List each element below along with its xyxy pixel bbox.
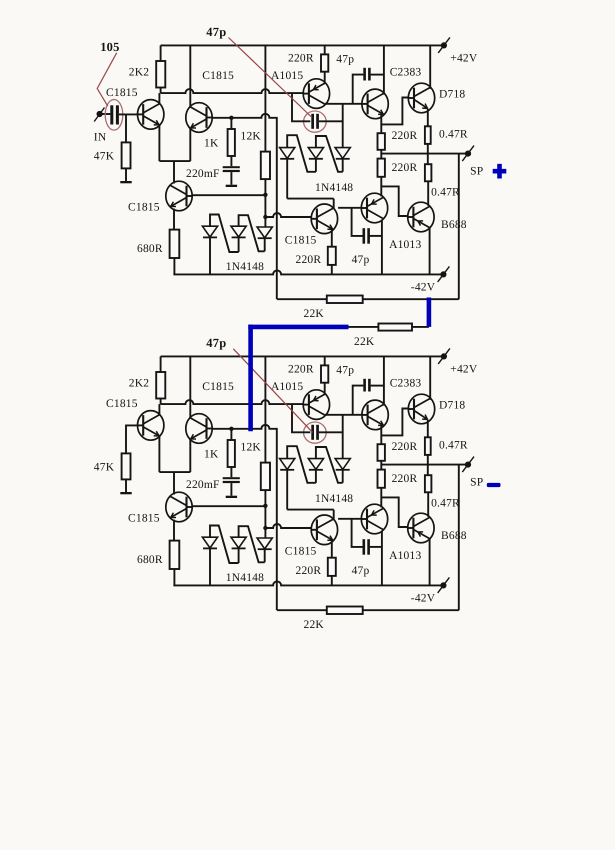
svg-text:105: 105	[100, 40, 119, 54]
wire D3 cathode lead A	[264, 238, 266, 251]
wire 47p right lead A	[371, 74, 384, 76]
svg-text:0.47R: 0.47R	[439, 129, 468, 141]
wire A1015 collector line A	[325, 103, 362, 105]
wire 47p left lead riser A1013 A	[352, 208, 364, 236]
wire D1 anode jog B	[210, 526, 239, 564]
wire 0.47R bottom to B688 B	[427, 492, 429, 517]
wire Q1 base to 47K B	[126, 425, 138, 453]
label 220R A1015 emitter A	[288, 53, 314, 65]
svg-text:-42V: -42V	[411, 593, 436, 605]
wire 220R VAS bottom lead A	[331, 265, 333, 275]
wire Q2 emitter B	[189, 439, 191, 472]
label C2383 B	[390, 378, 422, 390]
transistor Q7 C1815 VAS A	[311, 204, 337, 234]
blue minus sign at SP-	[487, 483, 501, 487]
wire D718 base wire A	[381, 98, 408, 125]
wire 0.47R top to output B	[427, 455, 429, 465]
wire 0.47R bottom top lead A	[427, 154, 429, 165]
transistor Q4 A1015 B	[303, 390, 329, 420]
capacitor 47p A1013 B	[363, 539, 370, 555]
wire VAS collector stub B	[333, 510, 335, 520]
label C1815 Q1 A	[106, 87, 138, 99]
resistor 220R A1015 emitter B	[321, 365, 328, 382]
terminal +42V B	[438, 348, 450, 364]
red highlight ellipse around input cap	[105, 100, 123, 131]
svg-text:-42V: -42V	[411, 282, 436, 294]
wire D3 cathode lead B	[264, 549, 266, 562]
label 1N4148 left chain A	[226, 261, 264, 273]
wire D718 collector riser B	[429, 356, 431, 399]
wire 2K2 top lead B	[160, 356, 162, 372]
wire 47K bottom lead A	[125, 168, 127, 181]
label 1K A	[204, 138, 219, 150]
blue wire bridge vertical right	[427, 298, 432, 327]
label 12K B	[241, 441, 262, 453]
transistor Q9 B688 B	[408, 513, 434, 543]
red highlight circle around 47p A	[304, 111, 327, 132]
diode D6 1N4148 B	[335, 459, 350, 470]
wire VAS base line B	[265, 524, 311, 528]
wire input to coupling cap	[100, 113, 111, 115]
label 12K A	[241, 130, 262, 142]
label 47p C2383 B	[336, 365, 354, 377]
svg-text:SP: SP	[470, 166, 483, 178]
wire A1013 collector to rail A	[381, 220, 383, 275]
wire feedback line B	[277, 609, 459, 611]
label SP A	[470, 166, 483, 178]
wire Q1 collector A	[158, 93, 160, 104]
resistor 2K2 B	[156, 372, 165, 399]
wire 2K2 top lead A	[160, 45, 162, 61]
wire 220R top lead B	[324, 356, 326, 365]
label 0.47R top B	[439, 440, 468, 452]
resistor 0.47R top B	[425, 437, 431, 455]
label +42V A	[450, 53, 478, 65]
wire 220R VAS bottom lead B	[331, 576, 333, 586]
wire D5 anode jog A	[316, 136, 343, 172]
wire Q1-collector to A1015-base line B	[161, 400, 304, 404]
svg-text:220R: 220R	[296, 254, 322, 266]
svg-text:22K: 22K	[304, 308, 325, 320]
label 0.47R bottom B	[431, 497, 460, 509]
wire 47p right lead A	[319, 120, 343, 122]
label 680R A	[137, 243, 163, 255]
wire Q2 collector riser A	[189, 45, 191, 107]
label 47K A	[94, 151, 115, 163]
label 47K B	[94, 462, 115, 474]
wire black link to 22K bridge	[349, 326, 429, 328]
wire D4 anode jog B	[287, 446, 316, 483]
svg-text:D718: D718	[439, 399, 465, 411]
wire D718 emitter B	[427, 420, 429, 438]
transistor Q3 C1815 current source B	[166, 492, 192, 522]
label A1013 B	[389, 550, 421, 562]
wire D4 cathode riser B	[286, 470, 288, 510]
wire VAS emitter B	[331, 540, 333, 558]
label -42V A	[411, 282, 436, 294]
resistor 0.47R bottom A	[425, 164, 432, 181]
junction dot bias node upper B	[263, 504, 267, 508]
wire 1K top lead B	[230, 429, 232, 440]
diode D5 1N4148 A	[308, 148, 323, 159]
diode D3 1N4148 B	[257, 538, 272, 549]
terminal +42V A	[438, 37, 450, 53]
svg-text:220R: 220R	[392, 130, 418, 142]
label C1815 VAS A	[285, 235, 317, 247]
wire 47p right lead A1013 A	[369, 235, 382, 237]
svg-text:680R: 680R	[137, 243, 163, 255]
wire VAS emitter A	[331, 229, 333, 247]
resistor 220R driver 1 B	[378, 444, 385, 461]
wire -42V bottom rail B	[173, 581, 443, 585]
wire 220R2 bottom lead B	[380, 488, 382, 508]
label 2K2 B	[129, 378, 149, 390]
transistor Q2 C1815 A	[186, 103, 212, 133]
wire 12K riser from rail B	[264, 356, 266, 462]
svg-text:22K: 22K	[354, 336, 375, 348]
transistor Q4 A1015 A	[303, 79, 329, 109]
label 22K bridge	[354, 336, 375, 348]
svg-text:0.47R: 0.47R	[439, 440, 468, 452]
label 220R VAS emitter B	[296, 565, 322, 577]
svg-text:47p: 47p	[352, 565, 370, 577]
svg-text:+42V: +42V	[450, 53, 478, 65]
wire SP riser to feedback A	[458, 154, 460, 300]
wire 2K2 bottom lead A	[160, 88, 162, 94]
svg-text:220mF: 220mF	[186, 168, 220, 180]
blue wire bridge horizontal	[248, 325, 348, 330]
svg-text:220R: 220R	[288, 53, 314, 65]
label 220R VAS emitter A	[296, 254, 322, 266]
label D718 A	[439, 88, 465, 100]
wire 680R bottom lead B	[173, 569, 175, 585]
wire 220R to A1015 emitter B	[324, 383, 326, 395]
label IN	[94, 132, 107, 144]
terminal -42V A	[438, 266, 450, 282]
svg-text:B688: B688	[441, 530, 467, 542]
label 1N4148 right chain B	[315, 493, 353, 505]
transistor Q6 D718 A	[408, 83, 434, 113]
wire Q1-collector to A1015-base line A	[161, 89, 304, 93]
capacitor 220mF A	[223, 166, 240, 172]
label 220R A1015 emitter B	[288, 364, 314, 376]
ground 47K B	[120, 492, 131, 494]
wire emitter tail line B	[159, 471, 190, 473]
wire Q3 base line A	[192, 194, 265, 196]
label 680R B	[137, 554, 163, 566]
diode D4 1N4148 A	[280, 148, 295, 159]
wire D1 cathode to rail B	[209, 549, 211, 586]
wire D5 cathode lead B	[315, 470, 317, 483]
wire C2383 collector riser B	[383, 356, 385, 405]
svg-text:2K2: 2K2	[129, 378, 149, 390]
wire 47p left lead and riser A	[353, 75, 364, 104]
diode D1 1N4148 A	[202, 226, 217, 237]
resistor 220R driver 2 B	[378, 470, 385, 488]
label C1815 Q2 A	[202, 70, 234, 82]
resistor 220R driver 2 A	[378, 159, 385, 177]
blue plus sign at SP+	[493, 164, 507, 179]
svg-text:C1815: C1815	[106, 87, 138, 99]
label 220R driver 1 A	[392, 130, 418, 142]
capacitor 47p C2383 Miller A	[363, 68, 370, 81]
label 1N4148 left chain B	[226, 572, 264, 584]
wire D718 collector riser A	[429, 45, 431, 88]
wire 220R to A1015 emitter A	[324, 72, 326, 84]
svg-text:2K2: 2K2	[129, 67, 149, 79]
svg-text:680R: 680R	[137, 554, 163, 566]
wire C2383 emitter riser A	[380, 114, 382, 133]
svg-text:C1815: C1815	[202, 381, 234, 393]
svg-text:B688: B688	[441, 219, 467, 231]
svg-text:A1015: A1015	[271, 381, 303, 393]
svg-text:C1815: C1815	[106, 398, 138, 410]
svg-text:C1815: C1815	[128, 201, 160, 213]
svg-text:47p: 47p	[206, 336, 226, 350]
transistor Q5 C2383 B	[362, 400, 388, 430]
diode D2 1N4148 B	[231, 537, 246, 548]
svg-text:C1815: C1815	[128, 512, 160, 524]
label SP B	[470, 477, 483, 489]
resistor 22K bridge	[378, 324, 412, 331]
wire 47K bottom lead B	[125, 479, 127, 492]
resistor 22K feedback B	[327, 607, 363, 615]
ground 47K A	[120, 181, 131, 183]
svg-text:1N4148: 1N4148	[315, 182, 353, 194]
label 22K feedback A	[304, 308, 325, 320]
svg-text:SP: SP	[470, 477, 483, 489]
wire A1013 base line B	[338, 518, 361, 520]
red pointer line from 47p label to cap B	[233, 349, 312, 433]
wire Q3 emitter B	[173, 520, 175, 541]
svg-text:47p: 47p	[336, 365, 354, 377]
wire A1015 collector line B	[325, 414, 362, 416]
svg-text:1N4148: 1N4148	[226, 261, 264, 273]
wire 47p left lead riser B	[292, 404, 310, 432]
svg-text:0.47R: 0.47R	[431, 186, 460, 198]
transistor Q9 B688 A	[408, 202, 434, 232]
wire C2383 emitter riser B	[380, 425, 382, 444]
svg-text:47K: 47K	[94, 462, 115, 474]
resistor 220R VAS emitter B	[328, 558, 336, 576]
label B688 A	[441, 219, 467, 231]
svg-text:C1815: C1815	[285, 546, 317, 558]
wire B688 emitter A	[429, 228, 431, 275]
wire Q2 collector riser B	[189, 356, 191, 418]
wire 220mF bottom lead B	[230, 483, 232, 496]
label A1015 A	[271, 70, 303, 82]
wire D2 anode jog B	[239, 526, 265, 562]
wire 0.47R bottom top lead B	[427, 465, 429, 476]
wire 1K bottom lead A	[230, 156, 232, 166]
label 1N4148 right chain A	[315, 182, 353, 194]
svg-text:12K: 12K	[241, 130, 262, 142]
transistor Q2 C1815 B	[186, 414, 212, 444]
junction dot bias node lower B	[263, 526, 267, 530]
label 220R driver 2 A	[392, 162, 418, 174]
diode D2 1N4148 A	[231, 226, 246, 237]
wire 12K bottom to bias node B	[264, 490, 266, 538]
wire 47p left lead and riser B	[353, 386, 364, 415]
resistor 12K B	[261, 463, 270, 491]
diode D3 1N4148 A	[257, 227, 272, 238]
label 105 (bold)	[100, 40, 119, 54]
label 47p A1013 A	[352, 254, 370, 266]
resistor 47K A	[122, 142, 131, 168]
resistor 1K A	[228, 129, 235, 156]
resistor 0.47R bottom B	[425, 475, 432, 492]
label D718 B	[439, 399, 465, 411]
wire -42V bottom rail A	[173, 270, 443, 274]
svg-text:12K: 12K	[241, 441, 262, 453]
resistor 220R A1015 emitter A	[321, 54, 328, 71]
wire +42V top rail B	[161, 355, 444, 357]
transistor Q1 C1815 input A	[138, 100, 164, 130]
label 47p (bold) A	[206, 25, 226, 39]
wire C2383 collector riser A	[383, 45, 385, 94]
wire Q1 emitter B	[158, 436, 160, 473]
capacitor 220mF B	[223, 477, 240, 483]
junction dot bias node upper A	[263, 193, 267, 197]
resistor 0.47R top A	[425, 126, 431, 144]
wire A1013 collector to rail B	[381, 531, 383, 586]
wire D718 emitter A	[427, 109, 429, 127]
capacitor 47p Miller A1015 B	[311, 425, 319, 440]
label 0.47R bottom A	[431, 186, 460, 198]
red pointer line from 105 label to input cap	[97, 53, 117, 106]
svg-text:+42V: +42V	[450, 364, 478, 376]
svg-text:220R: 220R	[392, 473, 418, 485]
label A1013 A	[389, 239, 421, 251]
wire Q1 emitter A	[158, 125, 160, 162]
svg-text:22K: 22K	[304, 619, 325, 631]
wire Q3 emitter A	[173, 209, 175, 230]
svg-text:1N4148: 1N4148	[226, 572, 264, 584]
label +42V B	[450, 364, 478, 376]
svg-text:220R: 220R	[392, 441, 418, 453]
wire 0.47R bottom to B688 A	[427, 181, 429, 206]
svg-text:1N4148: 1N4148	[315, 493, 353, 505]
resistor 47K B	[122, 453, 131, 479]
label A1015 B	[271, 381, 303, 393]
wire 0.47R top to output A	[427, 144, 429, 154]
junction dot bias node lower A	[263, 215, 267, 219]
wire 220R1-220R2 link A	[380, 150, 382, 159]
wire A1013 base line A	[338, 207, 361, 209]
wire +42V top rail A	[161, 44, 444, 46]
wire D1 cathode to rail A	[209, 238, 211, 275]
wire D6 cathode lead B	[342, 470, 344, 483]
ground 220mF A	[226, 185, 237, 187]
junction dot 1K top A	[229, 116, 233, 120]
junction dot 1K top B	[229, 427, 233, 431]
wire output node line A	[381, 153, 468, 155]
wire VAS collector line B	[287, 509, 334, 511]
svg-text:220R: 220R	[392, 162, 418, 174]
transistor Q5 C2383 A	[362, 89, 388, 119]
wire 1K bottom lead B	[230, 467, 232, 477]
wire 47K top lead	[125, 114, 127, 142]
transistor Q3 C1815 current source A	[166, 181, 192, 211]
wire D2 cathode lead A	[238, 238, 240, 253]
resistor 220R VAS emitter A	[328, 247, 336, 265]
diode D6 1N4148 A	[335, 148, 350, 159]
wire B688 base wire A	[381, 186, 408, 216]
wire D1 anode jog A	[210, 215, 239, 253]
capacitor 47p A1013 A	[363, 228, 370, 244]
wire VAS base line A	[265, 213, 311, 217]
svg-text:0.47R: 0.47R	[431, 497, 460, 509]
wire 220R1-220R2 link B	[380, 461, 382, 470]
label 220R driver 2 B	[392, 473, 418, 485]
wire B688 base wire B	[381, 497, 408, 527]
wire Q3 base line B	[192, 505, 265, 507]
wire B688 emitter B	[429, 539, 431, 586]
transistor Q6 D718 B	[408, 394, 434, 424]
wire D4 anode jog A	[287, 135, 316, 172]
wire Q3 collector A	[173, 161, 175, 183]
transistor Q7 C1815 VAS B	[311, 515, 337, 545]
wire input cap to Q1 base	[119, 113, 138, 115]
svg-text:47p: 47p	[352, 254, 370, 266]
svg-text:C2383: C2383	[390, 378, 422, 390]
label -42V B	[411, 593, 436, 605]
svg-text:C2383: C2383	[390, 67, 422, 79]
wire D6 anode riser A	[342, 104, 344, 148]
resistor 22K feedback A	[327, 296, 363, 304]
label 220mF B	[186, 479, 220, 491]
svg-text:C1815: C1815	[285, 235, 317, 247]
label C1815 VAS B	[285, 546, 317, 558]
wire 220R top lead A	[324, 45, 326, 54]
label 22K feedback B	[304, 619, 325, 631]
svg-text:D718: D718	[439, 88, 465, 100]
resistor 220R driver 1 A	[378, 133, 385, 150]
wire Q2 base / feedback node line B	[212, 425, 277, 610]
wire Q2 emitter A	[189, 128, 191, 161]
wire Q1 collector B	[158, 404, 160, 415]
svg-text:C1815: C1815	[202, 70, 234, 82]
wire 47p left lead riser A1013 B	[352, 519, 364, 547]
label 220mF A	[186, 168, 220, 180]
wire output node line B	[381, 464, 468, 466]
ground 220mF B	[226, 496, 237, 498]
svg-text:1K: 1K	[204, 449, 219, 461]
transistor Q1 C1815 input B	[138, 411, 164, 441]
resistor 1K B	[228, 440, 235, 467]
label C2383 A	[390, 67, 422, 79]
wire D6 anode riser B	[342, 415, 344, 459]
capacitor 47p C2383 Miller B	[363, 379, 370, 392]
wire D2 cathode lead B	[238, 549, 240, 564]
resistor 2K2 A	[156, 61, 165, 88]
label 220R driver 1 B	[392, 441, 418, 453]
wire D2 anode jog A	[239, 215, 265, 251]
wire 47p right lead A1013 B	[369, 546, 382, 548]
wire 47p right lead B	[319, 431, 343, 433]
resistor 12K A	[261, 152, 270, 180]
label C1815 Q1 B	[106, 398, 138, 410]
resistor 680R A	[170, 230, 180, 258]
label 0.47R top A	[439, 129, 468, 141]
svg-text:220R: 220R	[296, 565, 322, 577]
blue wire bridge vertical left to lower channel input	[248, 325, 253, 432]
terminal SP A	[462, 146, 474, 162]
label 2K2 A	[129, 67, 149, 79]
wire D4 cathode riser A	[286, 159, 288, 199]
label C1815 Q2 B	[202, 381, 234, 393]
transistor Q8 A1013 A	[361, 193, 387, 223]
